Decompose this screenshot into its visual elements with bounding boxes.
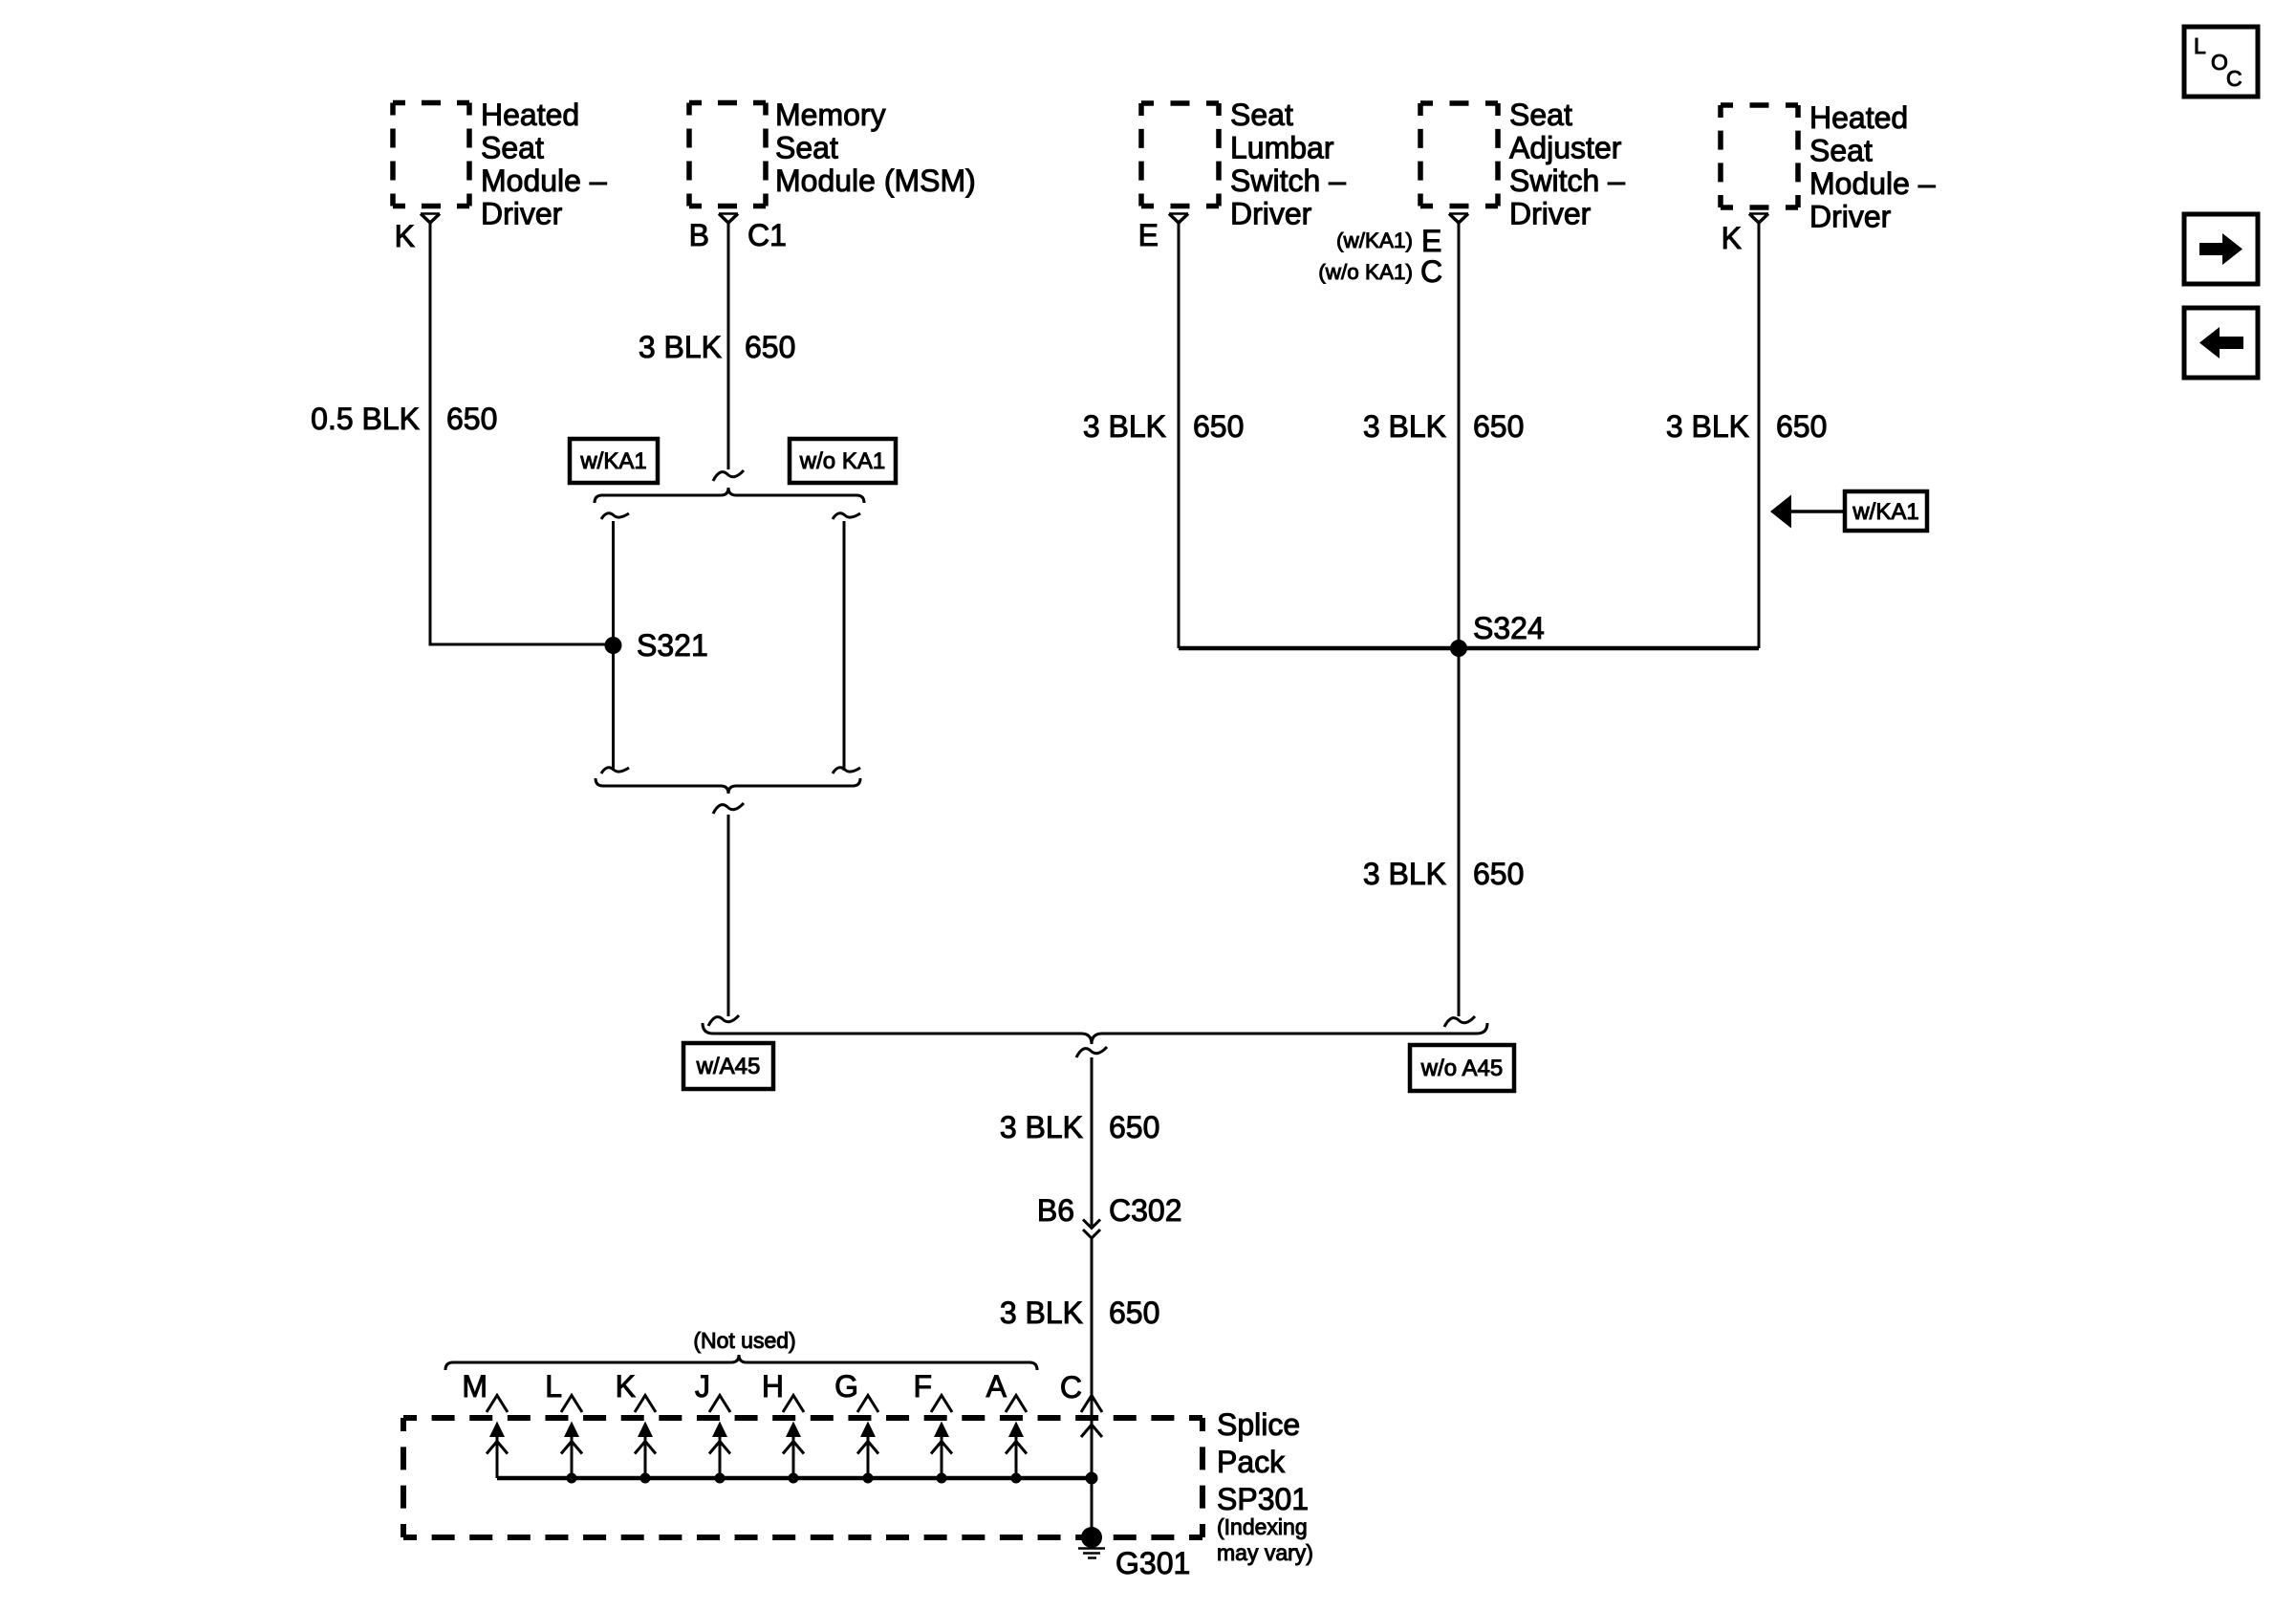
svg-text:3 BLK: 3 BLK — [1363, 857, 1446, 891]
svg-text:L: L — [545, 1369, 562, 1404]
svg-text:650: 650 — [1109, 1295, 1159, 1330]
svg-text:Heated: Heated — [481, 98, 579, 132]
svg-text:Switch –: Switch – — [1509, 163, 1625, 198]
svg-text:J: J — [695, 1369, 710, 1404]
svg-text:K: K — [395, 219, 415, 253]
svg-text:C302: C302 — [1109, 1193, 1182, 1228]
svg-text:(w/o KA1): (w/o KA1) — [1318, 260, 1413, 284]
svg-text:Seat: Seat — [1509, 98, 1572, 132]
svg-text:C: C — [2226, 66, 2242, 91]
svg-text:w/o KA1: w/o KA1 — [799, 448, 885, 474]
svg-text:C: C — [1060, 1370, 1082, 1404]
svg-text:L: L — [2194, 33, 2206, 58]
svg-text:G: G — [834, 1369, 858, 1404]
svg-text:Driver: Driver — [1509, 197, 1592, 231]
svg-text:may vary): may vary) — [1217, 1540, 1313, 1565]
svg-text:650: 650 — [1473, 409, 1524, 444]
svg-text:Adjuster: Adjuster — [1509, 131, 1622, 165]
svg-text:650: 650 — [1193, 409, 1244, 444]
svg-text:M: M — [462, 1369, 487, 1404]
svg-text:Lumbar: Lumbar — [1230, 131, 1334, 165]
svg-text:G301: G301 — [1116, 1546, 1190, 1580]
svg-text:Driver: Driver — [1230, 197, 1312, 231]
svg-text:Seat: Seat — [1809, 134, 1873, 168]
svg-text:Module (MSM): Module (MSM) — [775, 163, 976, 198]
svg-text:Seat: Seat — [1230, 98, 1293, 132]
svg-text:B: B — [689, 218, 709, 252]
svg-text:(w/KA1): (w/KA1) — [1336, 229, 1413, 252]
svg-text:H: H — [762, 1369, 784, 1404]
svg-text:(Not used): (Not used) — [693, 1328, 795, 1353]
svg-text:w/KA1: w/KA1 — [1852, 499, 1918, 525]
svg-text:3 BLK: 3 BLK — [1363, 409, 1446, 444]
svg-text:K: K — [1722, 221, 1742, 255]
svg-text:3 BLK: 3 BLK — [1083, 409, 1166, 444]
svg-text:Splice: Splice — [1217, 1407, 1300, 1442]
svg-text:w/o A45: w/o A45 — [1420, 1056, 1503, 1081]
svg-text:(Indexing: (Indexing — [1217, 1514, 1308, 1539]
svg-text:w/A45: w/A45 — [696, 1054, 761, 1079]
svg-text:Driver: Driver — [481, 197, 563, 231]
svg-text:Seat: Seat — [775, 131, 838, 165]
svg-text:SP301: SP301 — [1217, 1482, 1309, 1516]
svg-text:A: A — [986, 1369, 1007, 1404]
svg-text:3 BLK: 3 BLK — [1000, 1110, 1083, 1144]
svg-text:S321: S321 — [637, 628, 708, 663]
svg-text:Switch –: Switch – — [1230, 163, 1346, 198]
svg-text:C1: C1 — [747, 218, 787, 252]
svg-text:650: 650 — [745, 330, 795, 364]
svg-text:Seat: Seat — [481, 131, 544, 165]
svg-text:E: E — [1138, 218, 1159, 252]
svg-text:B6: B6 — [1037, 1193, 1074, 1228]
svg-text:0.5 BLK: 0.5 BLK — [311, 402, 420, 436]
svg-text:650: 650 — [446, 402, 497, 436]
svg-text:C: C — [1420, 254, 1442, 289]
svg-text:650: 650 — [1776, 409, 1827, 444]
svg-text:E: E — [1421, 224, 1441, 258]
svg-text:Driver: Driver — [1809, 200, 1892, 234]
svg-text:F: F — [913, 1369, 932, 1404]
svg-text:650: 650 — [1473, 857, 1524, 891]
svg-text:S324: S324 — [1473, 611, 1545, 645]
svg-text:Memory: Memory — [775, 98, 886, 132]
svg-text:Pack: Pack — [1217, 1445, 1286, 1479]
svg-text:w/KA1: w/KA1 — [579, 448, 646, 474]
svg-text:3 BLK: 3 BLK — [639, 330, 722, 364]
svg-text:3 BLK: 3 BLK — [1000, 1295, 1083, 1330]
svg-text:K: K — [616, 1369, 636, 1404]
svg-text:Module –: Module – — [481, 163, 607, 198]
svg-text:Module –: Module – — [1809, 166, 1936, 201]
svg-text:3 BLK: 3 BLK — [1666, 409, 1749, 444]
svg-text:Heated: Heated — [1809, 100, 1908, 135]
svg-text:650: 650 — [1109, 1110, 1159, 1144]
